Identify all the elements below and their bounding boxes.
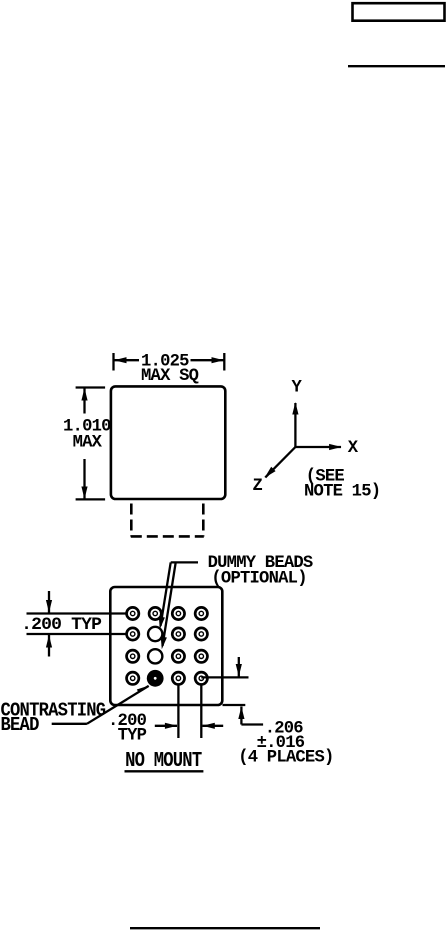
svg-text:MAX: MAX xyxy=(73,434,103,453)
terminal pad r3c1 xyxy=(127,650,139,662)
left dim extension line top xyxy=(76,386,106,388)
leader horizontal to DUMMY BEADS xyxy=(171,561,198,563)
hidden tab bottom dashed edge xyxy=(131,535,204,538)
left dimension line top segment xyxy=(83,388,85,414)
right dim extension from body bottom xyxy=(223,704,246,706)
svg-text:Z: Z xyxy=(253,477,263,496)
svg-text:TYP: TYP xyxy=(118,726,147,745)
svg-text:(OPTIONAL): (OPTIONAL) xyxy=(211,570,306,589)
title block box xyxy=(353,3,445,21)
top dimension line right segment xyxy=(191,359,225,361)
top dim arrowhead right xyxy=(212,357,225,363)
hidden tab right dashed edge xyxy=(202,504,205,537)
terminal pad r3c3 xyxy=(172,650,184,662)
top dimension line left segment xyxy=(114,359,139,361)
terminal pad r3c4 xyxy=(195,650,207,662)
terminal pad r2c1 xyxy=(127,628,139,640)
leader to contrasting bead xyxy=(52,723,87,725)
axis X arrowhead xyxy=(329,444,342,450)
axis X line xyxy=(295,446,341,448)
left dim arrowhead down xyxy=(81,487,87,500)
terminal pad r4c1 xyxy=(127,672,139,684)
dummy bead r3c2 xyxy=(148,649,162,663)
package body outline xyxy=(111,386,225,499)
left dim arrow up xyxy=(48,635,50,657)
left extension line row1 xyxy=(27,612,128,614)
leader line to dummy bead 2 xyxy=(163,562,176,646)
top dim extension line left xyxy=(112,353,114,371)
bottom dim arrow left xyxy=(203,725,224,727)
right dim extension from pad row4 xyxy=(201,676,248,678)
left dimension line bottom segment xyxy=(83,459,85,499)
axis Z line xyxy=(265,447,295,477)
right dim arrow up with elbow xyxy=(240,707,242,725)
terminal pad r1c2 xyxy=(149,607,161,619)
svg-text:X: X xyxy=(348,439,359,458)
right dim arrow down xyxy=(238,657,240,677)
svg-text:Y: Y xyxy=(292,379,303,398)
NO MOUNT underline xyxy=(125,770,204,772)
top dim extension line right xyxy=(223,353,225,371)
top dim arrowhead left xyxy=(114,357,127,363)
bottom extension line col4 xyxy=(200,686,202,739)
bottom extension line col3 xyxy=(177,686,179,739)
bottom dim arrow right xyxy=(155,725,177,727)
dummy bead r2c2 xyxy=(148,627,162,641)
left dim arrowhead up xyxy=(81,388,87,401)
leader line to dummy bead 1 xyxy=(161,562,171,626)
bottom view body outline xyxy=(110,587,222,705)
terminal pad r4c4 xyxy=(195,672,207,684)
svg-text:BEAD: BEAD xyxy=(1,714,40,736)
contrasting bead r4c2 xyxy=(147,670,164,687)
svg-text:(4 PLACES): (4 PLACES) xyxy=(238,749,333,768)
header rule xyxy=(348,65,445,67)
terminal pad r2c4 xyxy=(195,628,207,640)
hidden tab left dashed edge xyxy=(130,504,133,537)
axis Y line xyxy=(294,403,296,447)
terminal pad r1c3 xyxy=(172,607,184,619)
left extension line row2 xyxy=(27,633,128,635)
terminal pad r4c3 xyxy=(172,672,184,684)
svg-text:NOTE 15): NOTE 15) xyxy=(304,483,380,502)
terminal pad r1c4 xyxy=(195,607,207,619)
terminal pad r2c3 xyxy=(172,628,184,640)
left dim extension line bottom xyxy=(76,498,106,500)
svg-text:MAX SQ: MAX SQ xyxy=(141,367,199,386)
footer rule xyxy=(130,927,320,929)
svg-text:.200 TYP: .200 TYP xyxy=(21,616,101,635)
terminal pad r1c1 xyxy=(127,607,139,619)
axis Z arrowhead xyxy=(265,467,276,478)
left dim arrow down xyxy=(48,591,50,613)
axis Y arrowhead xyxy=(292,402,298,415)
svg-text:NO MOUNT: NO MOUNT xyxy=(125,749,202,773)
